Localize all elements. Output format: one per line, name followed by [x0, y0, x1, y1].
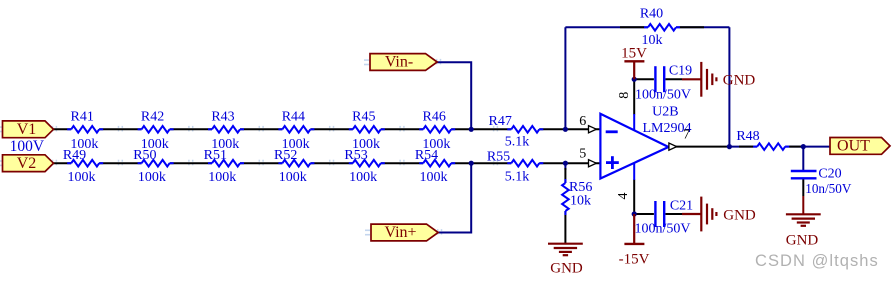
resistor R53 — [349, 158, 385, 169]
capacitor C21 — [655, 201, 664, 227]
svg-text:100k: 100k — [420, 170, 448, 185]
wire: R40 black pin leads — [620, 26, 644, 28]
wire junction — [469, 161, 474, 166]
svg-text:-15V: -15V — [619, 252, 650, 268]
svg-text:R45: R45 — [352, 109, 375, 124]
resistor R50 — [138, 158, 174, 169]
wire: op-amp pin 8 (V+) — [633, 79, 635, 114]
wire: feedback loop top horizontal (through R40) — [565, 26, 729, 28]
svg-text:C19: C19 — [669, 64, 692, 79]
op-amp pin 6 arrow — [589, 126, 597, 133]
svg-text:C20: C20 — [818, 167, 841, 182]
wire: R48 black pin leads — [739, 146, 753, 148]
svg-text:OUT: OUT — [837, 138, 870, 155]
svg-text:R40: R40 — [640, 7, 663, 22]
resistor R40 — [644, 22, 680, 33]
resistor R54 — [419, 158, 455, 169]
svg-text:CSDN @ltqshs: CSDN @ltqshs — [755, 252, 879, 270]
svg-text:R48: R48 — [736, 129, 759, 144]
svg-text:5.1k: 5.1k — [505, 134, 530, 149]
capacitor C20 — [791, 171, 817, 178]
svg-text:100V: 100V — [10, 138, 45, 155]
ground symbol GND (R56) — [548, 244, 583, 256]
op-amp pin 7 arrow — [669, 143, 677, 150]
wire junction — [632, 77, 637, 82]
resistor R45 — [349, 124, 385, 135]
resistor R47 — [507, 124, 543, 135]
svg-text:R46: R46 — [423, 109, 446, 124]
wire: -15V rail to C21 and GND — [634, 213, 654, 215]
resistor R43 — [208, 124, 244, 135]
wire: op-amp pin 4 (V-) — [633, 180, 635, 215]
wire junction — [727, 144, 732, 149]
wire: bottom input row (V2 to op-amp pin 5) — [54, 162, 601, 164]
svg-text:10n/50V: 10n/50V — [805, 181, 852, 196]
svg-text:100n/50V: 100n/50V — [635, 222, 691, 237]
resistor R49 — [67, 158, 103, 169]
port edge marks — [0, 60, 370, 235]
svg-text:V1: V1 — [17, 121, 37, 138]
wire: R56 branch from bottom row — [564, 163, 566, 170]
svg-text:4: 4 — [616, 193, 631, 200]
svg-text:100k: 100k — [349, 170, 377, 185]
resistor R56 (vertical) — [560, 179, 571, 215]
port V2 — [3, 155, 54, 172]
resistor R48 — [753, 141, 789, 152]
svg-text:10k: 10k — [570, 194, 591, 209]
svg-text:GND: GND — [723, 208, 756, 224]
svg-text:R44: R44 — [282, 109, 305, 124]
svg-text:8: 8 — [617, 92, 632, 99]
wire junction — [563, 127, 568, 132]
wire: Vin- drop to top row — [437, 62, 471, 129]
port Vin- — [370, 54, 437, 71]
svg-text:15V: 15V — [621, 45, 647, 61]
wire: output row (pin 7 to OUT port) — [669, 146, 730, 148]
svg-text:R55: R55 — [487, 149, 510, 164]
power symbol 15V — [624, 61, 644, 79]
wire: Vin+ rise to bottom row — [438, 163, 471, 232]
wire junction — [632, 211, 637, 216]
svg-text:100k: 100k — [138, 170, 166, 185]
svg-text:100k: 100k — [208, 170, 236, 185]
wire junction — [563, 161, 568, 166]
svg-text:Vin+: Vin+ — [384, 224, 416, 241]
capacitor C19 — [655, 66, 664, 92]
svg-text:6: 6 — [579, 114, 586, 129]
wire: C20 branch from output node — [802, 147, 804, 171]
ground symbol GND (C20) — [786, 214, 821, 226]
power symbol -15V — [624, 214, 644, 244]
resistor R41 — [67, 124, 103, 135]
resistor R46 — [419, 124, 455, 135]
wire junction — [801, 144, 806, 149]
svg-text:R43: R43 — [211, 109, 234, 124]
svg-text:100n/50V: 100n/50V — [635, 88, 691, 103]
svg-text:C21: C21 — [670, 199, 693, 214]
resistor R55 — [507, 158, 543, 169]
port Vin+ — [371, 224, 438, 241]
svg-text:R41: R41 — [71, 109, 94, 124]
port OUT — [830, 138, 890, 155]
resistor R42 — [138, 124, 174, 135]
svg-text:5: 5 — [579, 147, 586, 162]
ground symbol GND (C19) (rotated) — [682, 62, 716, 97]
svg-text:R52: R52 — [274, 148, 297, 163]
svg-text:R49: R49 — [63, 148, 86, 163]
svg-text:U2B: U2B — [652, 105, 678, 120]
op-amp U2B LM2904 — [600, 114, 668, 180]
resistor R44 — [278, 124, 314, 135]
wire junction — [469, 127, 474, 132]
svg-text:100k: 100k — [279, 170, 307, 185]
wire: feedback loop left vertical — [564, 27, 566, 129]
svg-text:R50: R50 — [133, 148, 156, 163]
svg-text:Vin-: Vin- — [385, 54, 413, 71]
svg-text:7: 7 — [683, 127, 690, 142]
svg-text:5.1k: 5.1k — [505, 170, 530, 185]
ground symbol GND (C21) (rotated) — [682, 197, 716, 232]
wire: feedback loop right vertical to output node — [728, 27, 730, 146]
svg-text:100k: 100k — [68, 170, 96, 185]
op-amp pin 5 arrow — [589, 160, 597, 167]
svg-text:GND: GND — [550, 261, 583, 277]
resistor R51 — [208, 158, 244, 169]
resistor R52 — [278, 158, 314, 169]
port V1 — [3, 121, 54, 138]
svg-text:R47: R47 — [489, 114, 512, 129]
svg-text:R42: R42 — [141, 109, 164, 124]
node hotspot marks — [53, 59, 498, 236]
svg-text:GND: GND — [786, 233, 819, 249]
svg-text:GND: GND — [723, 72, 756, 88]
svg-text:V2: V2 — [17, 155, 37, 172]
wire: 15V rail to C19 and GND — [634, 78, 654, 80]
svg-text:R54: R54 — [415, 148, 438, 163]
svg-text:R51: R51 — [204, 148, 227, 163]
svg-text:R53: R53 — [344, 148, 367, 163]
wire: top input row (V1 to op-amp pin 6) — [54, 128, 601, 130]
